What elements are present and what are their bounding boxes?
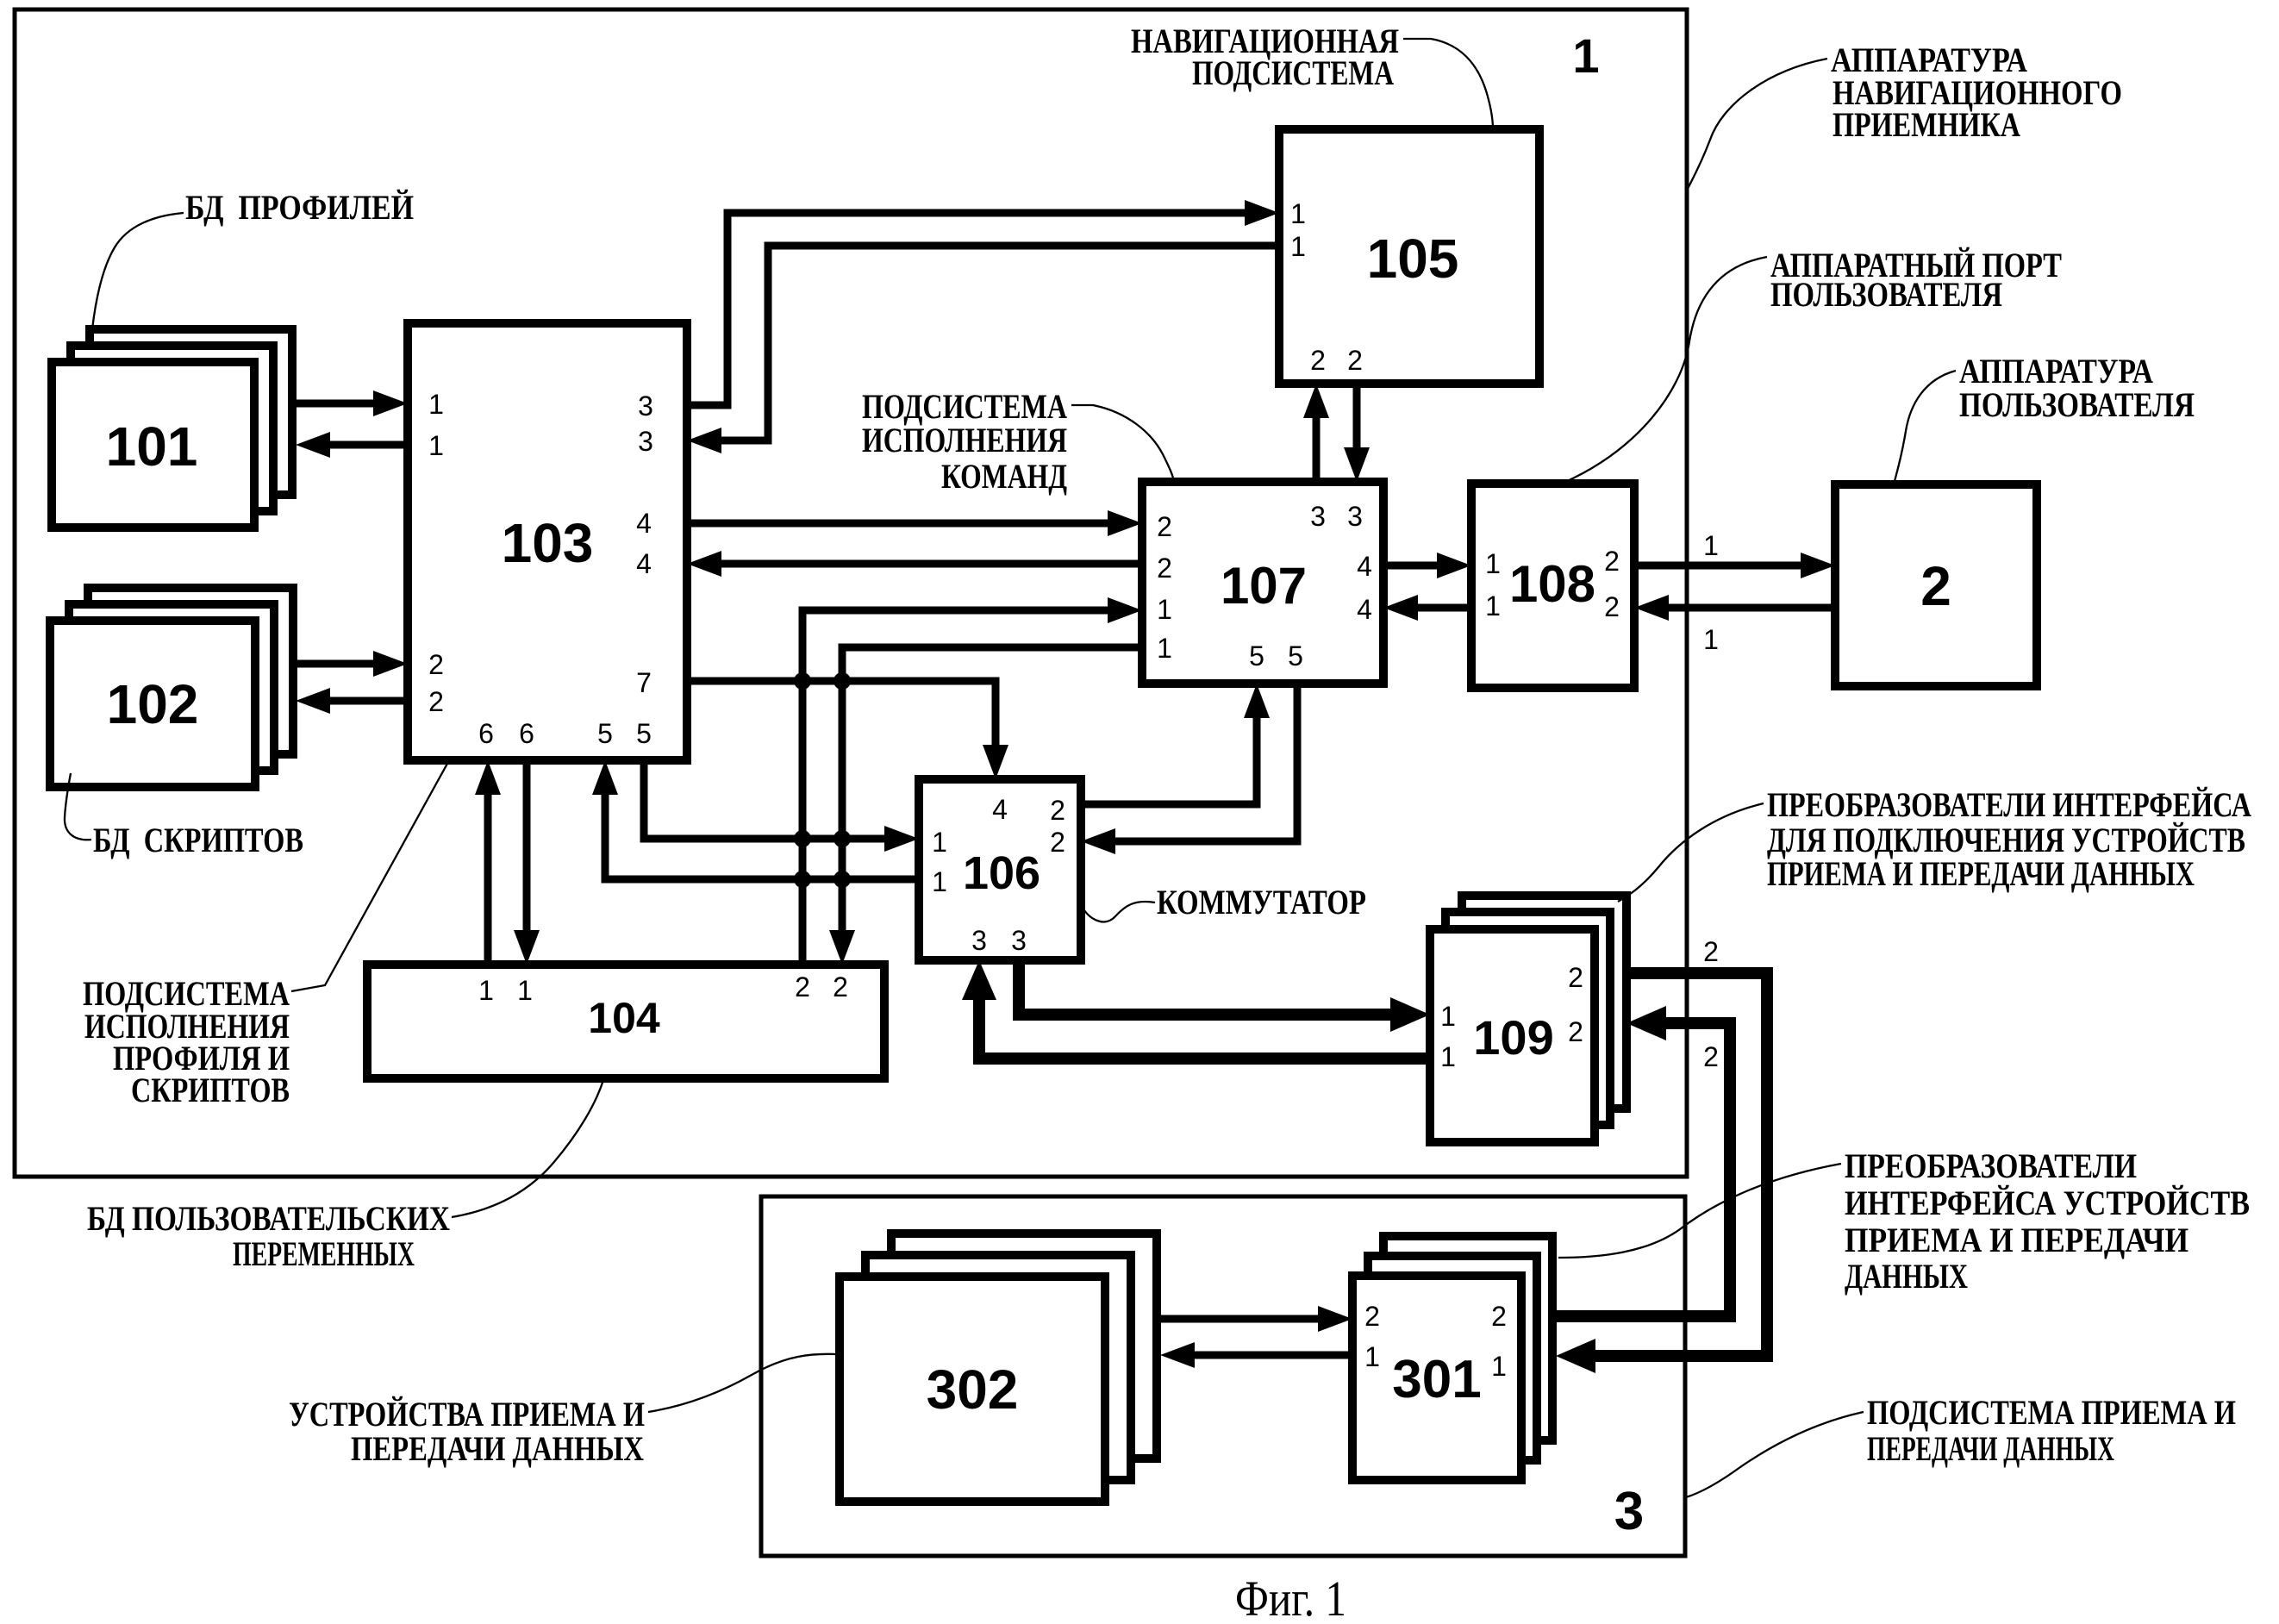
svg-text:106: 106 <box>963 847 1040 899</box>
wire 106 port 1 to 103 port 5 <box>592 760 919 879</box>
svg-text:2: 2 <box>1604 591 1620 622</box>
wire 108 port 2 to block 2 <box>1634 553 1835 578</box>
svg-text:2: 2 <box>1157 553 1172 584</box>
wire 103 port 5 to 106 port 1 <box>644 760 919 852</box>
svg-text:3: 3 <box>1310 501 1326 532</box>
block 103 pin labels <box>428 389 653 749</box>
block 103 profile and script execution subsystem <box>408 323 687 760</box>
block 106 pin labels <box>932 794 1065 956</box>
svg-text:2: 2 <box>1050 827 1065 858</box>
block 107 command execution subsystem <box>1142 482 1383 684</box>
svg-text:1: 1 <box>428 430 444 461</box>
svg-text:1: 1 <box>1572 28 1599 83</box>
block 108 user hardware port <box>1471 484 1634 688</box>
svg-text:3: 3 <box>971 925 987 956</box>
wire 109 port 2 to 301 port 1 <box>1556 973 1767 1373</box>
svg-text:БД ПОЛЬЗОВАТЕЛЬСКИХ: БД ПОЛЬЗОВАТЕЛЬСКИХ <box>87 1199 450 1238</box>
wire 107 port 2 to 103 port 4 <box>687 551 1142 577</box>
svg-text:1: 1 <box>1290 198 1306 229</box>
svg-text:2: 2 <box>428 686 444 717</box>
svg-text:2: 2 <box>1568 962 1583 993</box>
subsystem boundary box 3 <box>761 1196 1685 1556</box>
block 104 user variables database <box>367 965 884 1078</box>
svg-text:301: 301 <box>1392 1350 1481 1409</box>
svg-text:2: 2 <box>1050 795 1065 826</box>
svg-text:БД СКРИПТОВ: БД СКРИПТОВ <box>93 821 303 859</box>
svg-text:1: 1 <box>1290 231 1306 262</box>
wire block 2 to 108 port 2 <box>1634 595 1835 621</box>
svg-text:2: 2 <box>1568 1016 1583 1047</box>
wire 103 port 2 to 102 <box>296 688 408 714</box>
svg-text:ПРЕОБРАЗОВАТЕЛИ ИНТЕРФЕЙСА: ПРЕОБРАЗОВАТЕЛИ ИНТЕРФЕЙСА <box>1767 785 2251 824</box>
svg-text:2: 2 <box>1920 555 1951 617</box>
label interface converters for transceiver devices <box>1767 785 2251 893</box>
block 302 data transceiver devices page stack <box>840 1234 1157 1502</box>
block 109 pin labels <box>1440 962 1583 1072</box>
callout user hardware port to 108 <box>1564 257 1767 483</box>
callout navigation subsystem to 105 <box>1403 39 1493 129</box>
svg-text:2: 2 <box>1604 546 1620 577</box>
svg-text:1: 1 <box>1364 1341 1380 1372</box>
callout profiles database to 101 <box>92 213 184 329</box>
svg-text:6: 6 <box>478 718 494 749</box>
svg-text:108: 108 <box>1509 555 1595 613</box>
wire 103 port 4 to 107 port 2 <box>687 510 1142 536</box>
svg-text:3: 3 <box>1347 501 1363 532</box>
block 105 pin labels <box>1290 198 1363 376</box>
label scripts database <box>93 821 303 859</box>
svg-text:4: 4 <box>1357 551 1372 582</box>
svg-text:ПЕРЕДАЧИ ДАННЫХ: ПЕРЕДАЧИ ДАННЫХ <box>351 1429 644 1468</box>
svg-text:5: 5 <box>597 718 613 749</box>
label profile and scripts execution subsystem <box>83 974 290 1109</box>
svg-text:102: 102 <box>107 673 199 735</box>
svg-text:1: 1 <box>1703 530 1719 561</box>
wire 103 port 1 to 101 <box>296 432 408 458</box>
svg-text:ПРИЕМА И ПЕРЕДАЧИ ДАННЫХ: ПРИЕМА И ПЕРЕДАЧИ ДАННЫХ <box>1767 854 2195 893</box>
svg-text:1: 1 <box>1440 1001 1456 1032</box>
label profiles database <box>185 188 414 227</box>
block 107 pin labels <box>1157 501 1372 671</box>
block 301 pin labels <box>1364 1301 1507 1382</box>
svg-text:ПРИЕМНИКА: ПРИЕМНИКА <box>1833 105 2020 144</box>
svg-text:ПРЕОБРАЗОВАТЕЛИ: ПРЕОБРАЗОВАТЕЛИ <box>1845 1146 2137 1185</box>
wire 301 port 2 to 109 port 2 <box>1555 1006 1730 1316</box>
svg-text:ИНТЕРФЕЙСА УСТРОЙСТВ: ИНТЕРФЕЙСА УСТРОЙСТВ <box>1845 1184 2250 1222</box>
svg-text:3: 3 <box>638 426 653 457</box>
wire 106 port 3 to 109 port 1 <box>1019 960 1430 1032</box>
wire 302 to 301 port 2 <box>1159 1306 1352 1332</box>
callout navigation receiver equipment to box 1 edge <box>1687 59 1827 191</box>
wire 103 port 3 to 105 port 1 <box>687 200 1279 405</box>
callout user variables database to 104 <box>452 1080 603 1217</box>
wire 107 port 3 to 105 port 2 <box>1303 384 1329 482</box>
wire 107 port 5 to 106 port 2 <box>1081 684 1297 854</box>
svg-text:2: 2 <box>1703 1041 1719 1072</box>
svg-text:1: 1 <box>1485 590 1501 621</box>
label commutator <box>1157 883 1366 921</box>
svg-text:105: 105 <box>1367 228 1459 290</box>
svg-text:3: 3 <box>1011 925 1027 956</box>
svg-text:2: 2 <box>795 971 810 1003</box>
callout interface converters to 109 <box>1618 803 1764 902</box>
svg-text:4: 4 <box>636 508 652 539</box>
svg-text:4: 4 <box>992 794 1008 825</box>
svg-text:2: 2 <box>1491 1301 1507 1332</box>
wire 107 port 1 to 104 port 2 <box>829 647 1142 965</box>
svg-text:1: 1 <box>932 827 947 858</box>
svg-text:ПОЛЬЗОВАТЕЛЯ: ПОЛЬЗОВАТЕЛЯ <box>1770 275 2002 314</box>
wire 301 port 1 to 302 <box>1160 1342 1352 1368</box>
block 106 commutator <box>919 779 1081 960</box>
svg-text:5: 5 <box>636 718 652 749</box>
label data transceiver devices <box>289 1395 645 1468</box>
wire 106 port 2 to 107 port 5 <box>1081 684 1270 804</box>
callout user equipment to block 2 <box>1894 371 1956 484</box>
svg-text:ИСПОЛНЕНИЯ: ИСПОЛНЕНИЯ <box>862 421 1067 459</box>
callout commutator to 106 <box>1081 902 1155 921</box>
wire 103 port 6 to 104 port 1 <box>514 760 540 965</box>
svg-text:1: 1 <box>1491 1351 1507 1382</box>
label data transceiver subsystem <box>1867 1393 2236 1468</box>
svg-text:ПОДСИСТЕМА ПРИЕМА И: ПОДСИСТЕМА ПРИЕМА И <box>1867 1393 2236 1432</box>
label command execution subsystem <box>862 387 1067 496</box>
callout data transceiver subsystem to box 3 <box>1686 1412 1864 1497</box>
callout profile and scripts execution subsystem to 103 <box>291 762 448 991</box>
svg-text:КОММУТАТОР: КОММУТАТОР <box>1157 883 1366 921</box>
wire 104 port 1 to 103 port 6 <box>475 760 501 965</box>
block 101 profiles database page stack <box>52 329 292 528</box>
svg-text:2: 2 <box>428 649 444 680</box>
svg-text:ПРИЕМА И ПЕРЕДАЧИ: ПРИЕМА И ПЕРЕДАЧИ <box>1845 1221 2188 1259</box>
wire 104 port 2 to 107 port 1 <box>802 597 1142 965</box>
svg-text:2: 2 <box>1157 511 1172 542</box>
block 301 device interface converters page stack <box>1352 1236 1552 1480</box>
svg-text:БД ПРОФИЛЕЙ: БД ПРОФИЛЕЙ <box>185 188 414 227</box>
svg-text:4: 4 <box>1357 594 1372 625</box>
svg-text:109: 109 <box>1473 1010 1553 1065</box>
svg-text:КОМАНД: КОМАНД <box>941 457 1067 496</box>
svg-text:ПЕРЕДАЧИ ДАННЫХ: ПЕРЕДАЧИ ДАННЫХ <box>1867 1429 2114 1468</box>
block 2 user equipment <box>1835 484 2037 686</box>
svg-text:ДАННЫХ: ДАННЫХ <box>1845 1257 1968 1296</box>
wire 109 port 1 to 106 port 3 <box>962 960 1430 1059</box>
svg-text:6: 6 <box>519 718 534 749</box>
svg-text:1: 1 <box>1485 548 1501 579</box>
svg-text:2: 2 <box>1347 345 1363 376</box>
callout command execution subsystem to 107 <box>1071 405 1174 482</box>
svg-text:1: 1 <box>1703 624 1719 655</box>
svg-text:ПОЛЬЗОВАТЕЛЯ: ПОЛЬЗОВАТЕЛЯ <box>1959 385 2195 424</box>
svg-text:107: 107 <box>1221 557 1307 615</box>
svg-text:СКРИПТОВ: СКРИПТОВ <box>131 1071 290 1109</box>
svg-text:ПЕРЕМЕННЫХ: ПЕРЕМЕННЫХ <box>233 1234 415 1273</box>
svg-text:3: 3 <box>1614 1482 1644 1541</box>
junction dots on bus verticals <box>794 672 851 888</box>
svg-text:ПОДСИСТЕМА: ПОДСИСТЕМА <box>1192 53 1394 92</box>
label user variables database <box>87 1199 450 1273</box>
label navigation subsystem <box>1131 22 1399 92</box>
svg-text:2: 2 <box>833 971 848 1003</box>
svg-text:302: 302 <box>927 1359 1019 1421</box>
svg-text:2: 2 <box>1703 936 1719 967</box>
svg-text:2: 2 <box>1364 1301 1380 1332</box>
callout data transceiver devices to 302 <box>648 1354 837 1412</box>
label user hardware port <box>1770 246 2062 314</box>
block 109 interface converters page stack <box>1430 896 1627 1142</box>
wire 103 port 7 to 106 port 4 <box>687 681 1008 779</box>
wire 108 port 1 to 107 port 4 <box>1383 595 1471 621</box>
block 105 navigation subsystem <box>1279 129 1539 384</box>
svg-text:103: 103 <box>502 512 594 574</box>
block 108 pin labels <box>1485 546 1620 622</box>
block 102 scripts database page stack <box>50 588 293 787</box>
wire 101 to 103 port 1 <box>295 390 408 416</box>
svg-text:4: 4 <box>636 548 652 579</box>
svg-text:1: 1 <box>517 975 533 1006</box>
callout device interface converters to 301 <box>1558 1164 1841 1258</box>
svg-text:1: 1 <box>428 389 444 420</box>
svg-text:5: 5 <box>1249 640 1264 671</box>
svg-text:УСТРОЙСТВА ПРИЕМА И: УСТРОЙСТВА ПРИЕМА И <box>289 1395 645 1433</box>
system boundary box 1 <box>15 9 1687 1177</box>
wire 105 port 2 to 107 port 3 <box>1344 384 1370 482</box>
callout scripts database to 102 <box>65 773 91 840</box>
wire 105 port 1 to 103 port 3 <box>687 246 1279 453</box>
wire 107 port 4 to 108 port 1 <box>1383 553 1471 578</box>
label navigation receiver equipment <box>1831 41 2122 144</box>
wire 102 to 103 port 2 <box>295 651 408 677</box>
svg-text:1: 1 <box>1440 1041 1456 1072</box>
svg-text:5: 5 <box>1288 640 1303 671</box>
svg-text:Фиг. 1: Фиг. 1 <box>1235 1571 1346 1624</box>
svg-text:1: 1 <box>1157 594 1172 625</box>
svg-text:1: 1 <box>1157 633 1172 664</box>
svg-text:104: 104 <box>588 994 660 1042</box>
svg-text:2: 2 <box>1310 345 1326 376</box>
svg-text:101: 101 <box>106 415 198 478</box>
label user equipment <box>1959 352 2195 424</box>
block 104 pin labels <box>478 971 848 1006</box>
label device interface converters <box>1845 1146 2250 1296</box>
svg-text:1: 1 <box>478 975 494 1006</box>
svg-text:7: 7 <box>636 667 652 698</box>
svg-text:3: 3 <box>638 390 653 422</box>
svg-text:1: 1 <box>932 866 947 897</box>
